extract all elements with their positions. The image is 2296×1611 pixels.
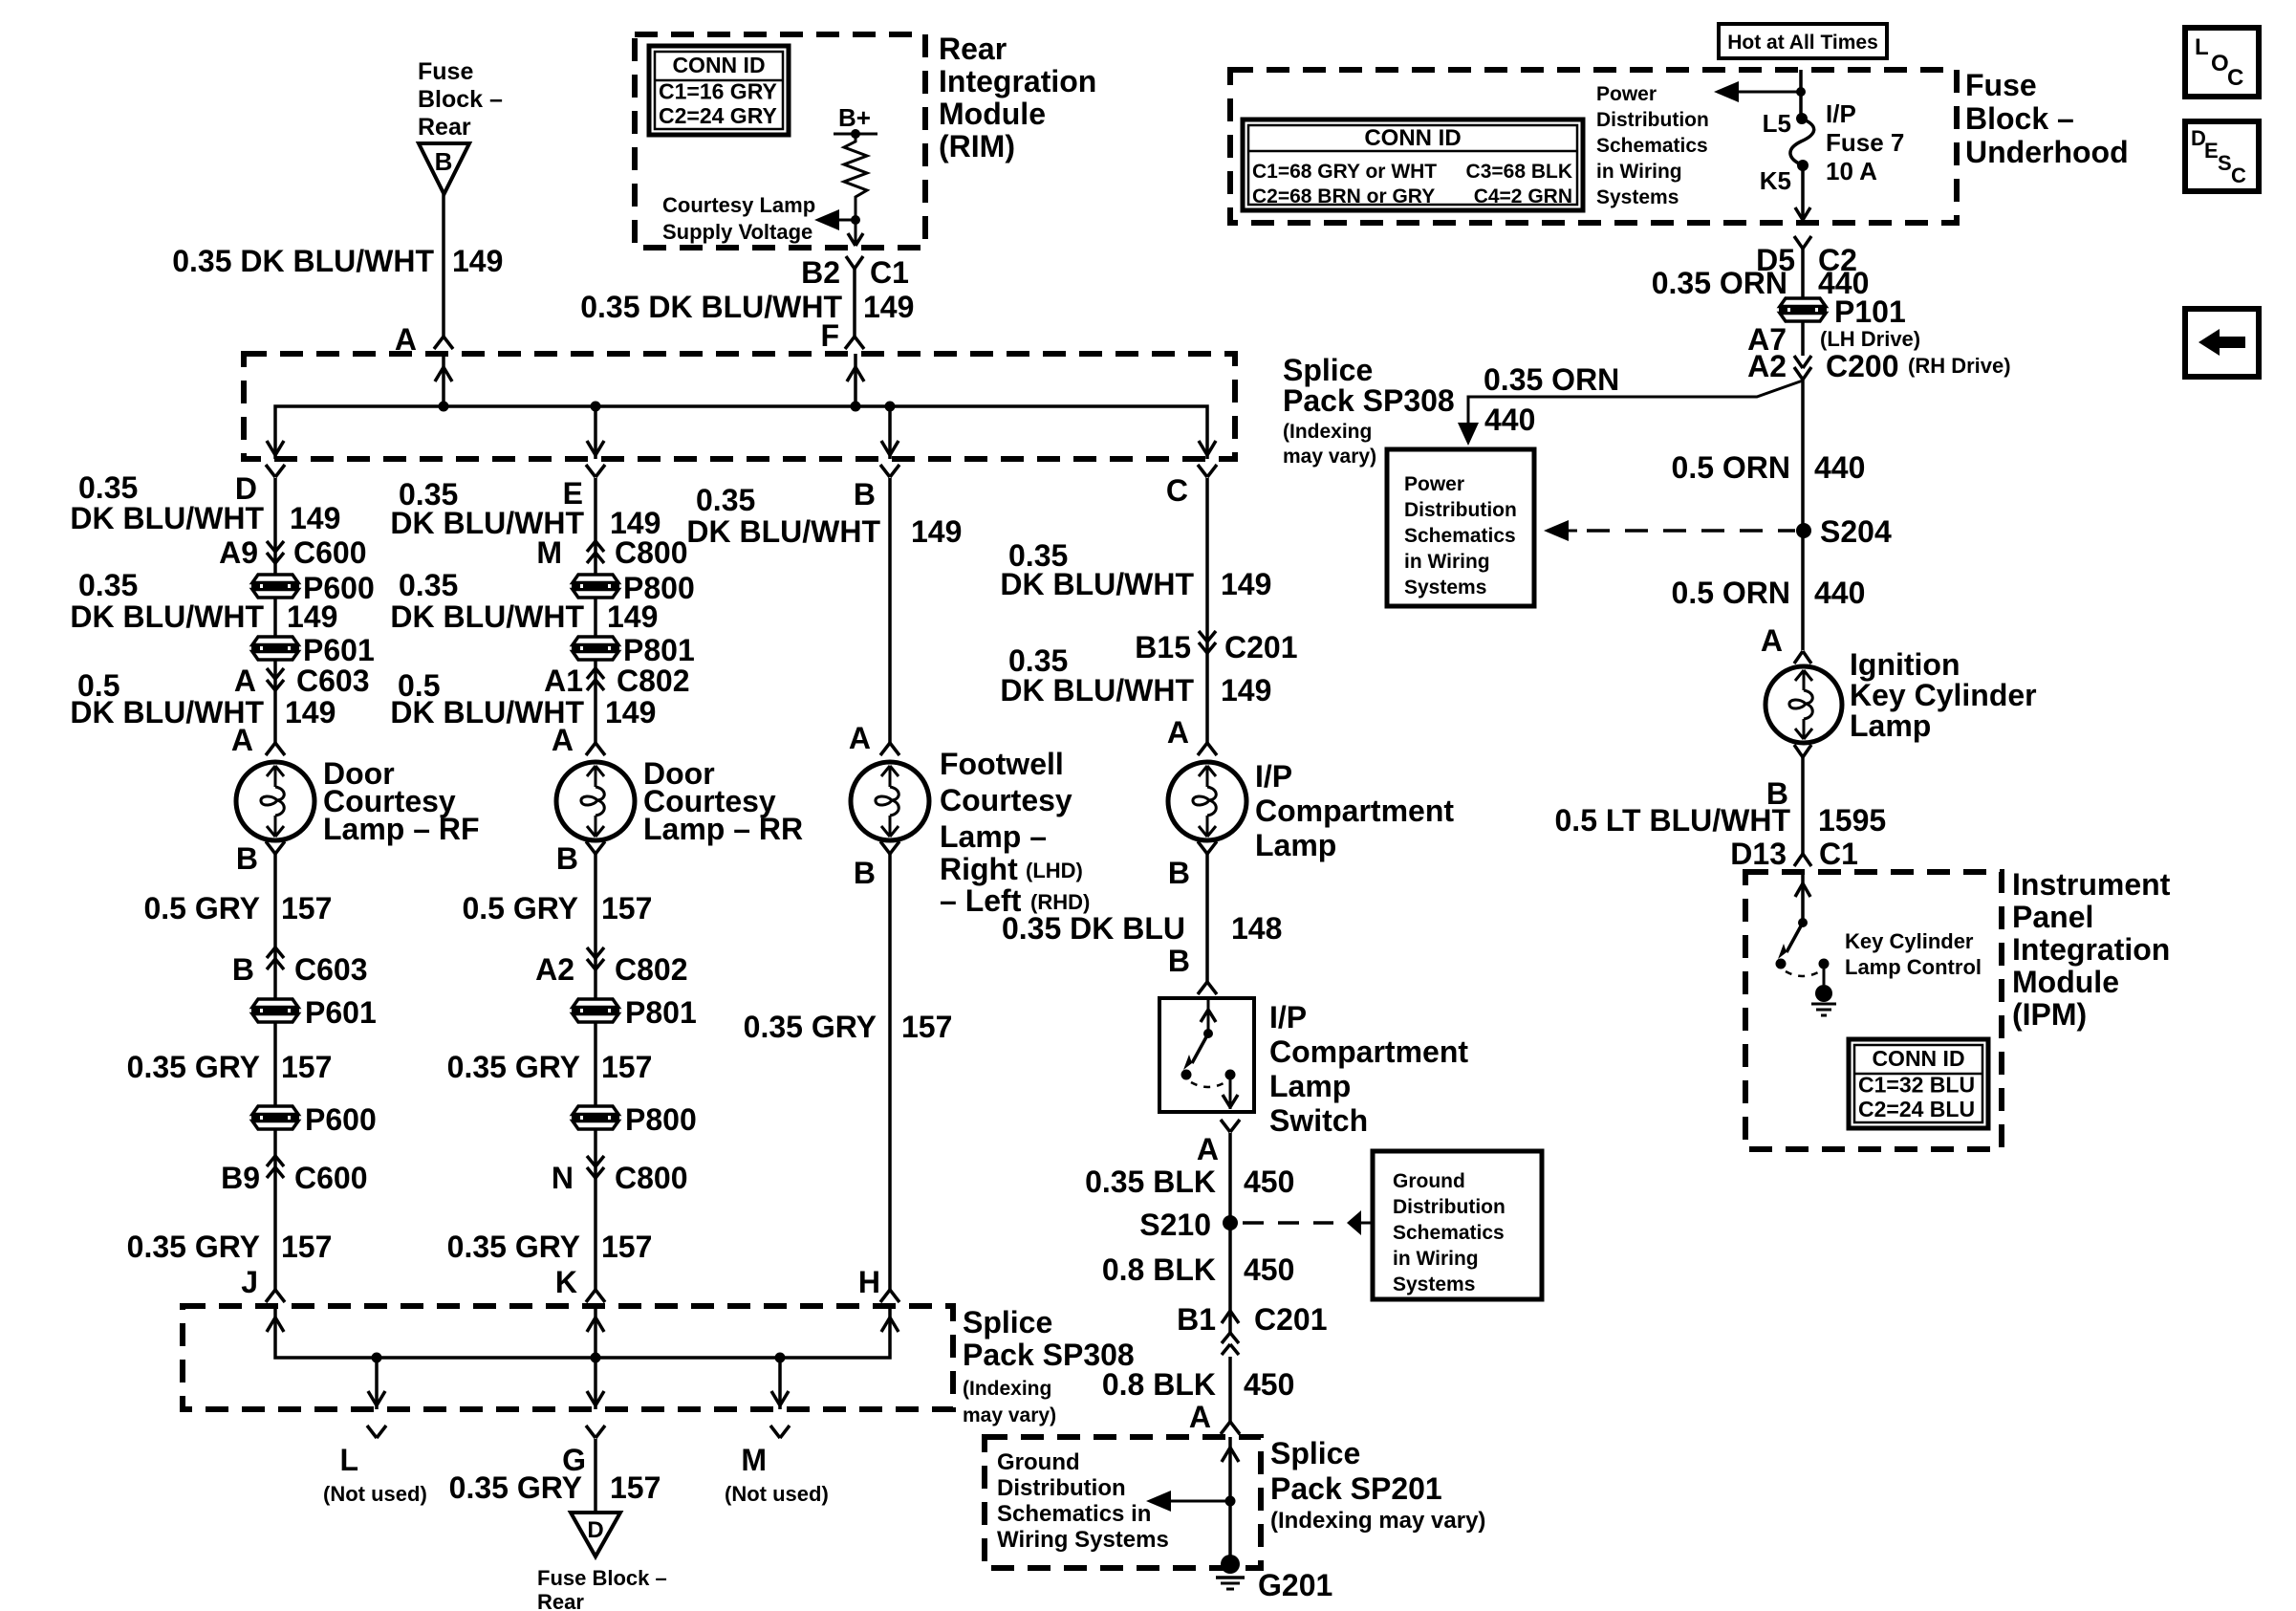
- svg-text:C201: C201: [1224, 630, 1298, 664]
- svg-text:Hot at All Times: Hot at All Times: [1727, 32, 1878, 54]
- footwell courtesy lamp: [851, 762, 929, 840]
- svg-text:Splice: Splice: [1283, 353, 1373, 387]
- svg-text:Lamp: Lamp: [1850, 708, 1931, 743]
- terminal A switch: [1197, 1132, 1219, 1166]
- svg-text:I/P: I/P: [1255, 759, 1292, 794]
- node bus-K: [591, 1353, 601, 1363]
- connector A9/C600: [219, 535, 366, 570]
- svg-text:Fuse Block –: Fuse Block –: [537, 1566, 667, 1590]
- wire G to fuse block rear: [594, 1439, 597, 1513]
- fuse element I/P Fuse 7: [1790, 119, 1814, 165]
- svg-text:S: S: [2218, 151, 2232, 175]
- svg-text:0.35 GRY: 0.35 GRY: [127, 1230, 260, 1264]
- SP308 L drop: [368, 1358, 385, 1409]
- fuse block rear bottom label: [537, 1566, 667, 1611]
- node power junction: [1796, 87, 1806, 97]
- door lamp RR name label: [643, 756, 803, 846]
- terminal A ignition lamp: [1761, 623, 1783, 658]
- svg-text:D: D: [587, 1517, 603, 1543]
- svg-text:Schematics: Schematics: [1393, 1222, 1505, 1244]
- svg-text:Rear: Rear: [537, 1590, 584, 1611]
- svg-text:Distribution: Distribution: [997, 1475, 1126, 1501]
- svg-text:157: 157: [601, 1050, 652, 1084]
- connector chevron SP201: [1221, 1422, 1240, 1434]
- svg-text:440: 440: [1814, 450, 1865, 485]
- connector chevron door lamp RF bottom: [266, 841, 285, 854]
- svg-text:Systems: Systems: [1596, 186, 1679, 208]
- svg-text:A2: A2: [1747, 349, 1787, 383]
- terminal B switch: [1168, 944, 1190, 978]
- svg-text:148: 148: [1231, 911, 1282, 946]
- svg-text:0.35: 0.35: [696, 483, 755, 517]
- splice S204: [1796, 514, 1892, 549]
- courtesy lamp supply voltage label: [662, 193, 815, 244]
- IPM name label: [2012, 867, 2171, 1032]
- connector P800 (lower): [572, 1102, 697, 1137]
- svg-text:Distribution: Distribution: [1404, 499, 1517, 521]
- svg-text:Splice: Splice: [963, 1305, 1052, 1339]
- wire label 0.35 GRY 157 (G): [449, 1470, 661, 1505]
- terminal B ignition lamp: [1766, 776, 1788, 811]
- connector chevron footwell lamp bottom: [880, 841, 899, 854]
- svg-text:Ground: Ground: [997, 1449, 1080, 1475]
- back arrow box: [2185, 309, 2259, 377]
- svg-text:Lamp –: Lamp –: [940, 819, 1047, 854]
- svg-text:Pack SP201: Pack SP201: [1270, 1471, 1442, 1506]
- DESC reference box: [2185, 121, 2259, 191]
- svg-text:B1: B1: [1177, 1302, 1216, 1337]
- wire label 0.35 GRY 157 (D6): [127, 1230, 333, 1264]
- connector chevron branch C: [1198, 465, 1217, 477]
- SP201 ground reference arrow: [1146, 1491, 1230, 1512]
- svg-text:A: A: [1189, 1400, 1211, 1434]
- svg-text:C1: C1: [1819, 837, 1858, 871]
- connector P101: [1779, 294, 1906, 329]
- svg-text:K: K: [555, 1265, 577, 1299]
- svg-text:(RH Drive): (RH Drive): [1908, 354, 2011, 378]
- svg-text:J: J: [241, 1265, 258, 1299]
- svg-text:10 A: 10 A: [1826, 157, 1877, 185]
- svg-text:440: 440: [1484, 403, 1535, 437]
- connector P600 (lower): [251, 1102, 377, 1137]
- svg-text:C4=2 GRN: C4=2 GRN: [1474, 185, 1572, 207]
- svg-text:0.35: 0.35: [78, 568, 138, 602]
- wire label 0.35 GRY 157 (B2): [744, 1010, 953, 1044]
- svg-text:DK BLU/WHT: DK BLU/WHT: [686, 514, 880, 549]
- I/P compartment lamp: [1168, 762, 1246, 840]
- SP308 B exit arrow: [881, 441, 899, 455]
- terminal E label: [563, 476, 583, 511]
- SP308 B drop: [888, 406, 892, 459]
- splice pack SP308 dashed box (top): [244, 354, 1235, 459]
- svg-text:B+: B+: [838, 103, 871, 132]
- svg-text:Systems: Systems: [1393, 1274, 1475, 1295]
- wire switch to S210: [1228, 1133, 1232, 1223]
- svg-text:S204: S204: [1820, 514, 1892, 549]
- svg-text:149: 149: [285, 695, 336, 729]
- connector A2/C200: [1747, 349, 2010, 383]
- footwell lamp name label: [940, 747, 1090, 918]
- connector P801 (lower): [572, 995, 697, 1030]
- power feed arrow left: [1714, 81, 1801, 102]
- svg-text:0.35 GRY: 0.35 GRY: [744, 1010, 877, 1044]
- svg-text:0.35 ORN: 0.35 ORN: [1484, 362, 1619, 397]
- fuse block CONN ID table: [1243, 120, 1583, 210]
- SP308 A riser: [435, 354, 452, 406]
- svg-text:Fuse: Fuse: [1965, 68, 2037, 102]
- wire branch D upper: [273, 478, 277, 743]
- wire label 0.5 GRY 157 (E4): [462, 891, 652, 925]
- IPM CONN ID table: [1849, 1039, 1988, 1128]
- node RIM output junction: [851, 215, 860, 225]
- svg-text:B: B: [556, 841, 578, 876]
- svg-text:C1=68 GRY or WHT: C1=68 GRY or WHT: [1252, 161, 1437, 183]
- svg-text:157: 157: [901, 1010, 952, 1044]
- wire RIM to splice pack F: [853, 269, 856, 337]
- splice pack SP308 label (top): [1283, 353, 1455, 468]
- svg-text:157: 157: [281, 1230, 332, 1264]
- G201 label: [1258, 1568, 1332, 1602]
- svg-text:B: B: [236, 841, 258, 876]
- SP308 H entry arrow: [881, 1317, 899, 1332]
- svg-text:P801: P801: [625, 995, 697, 1030]
- svg-text:A: A: [231, 723, 253, 757]
- wire branch B upper: [888, 478, 892, 743]
- svg-text:B9: B9: [221, 1161, 260, 1195]
- key cylinder lamp control label: [1845, 929, 1982, 979]
- svg-text:Ignition: Ignition: [1850, 647, 1960, 682]
- Fuse Block Underhood dashed box: [1230, 70, 1957, 223]
- SP308 K riser: [587, 1306, 604, 1358]
- SP201 input arrow: [1222, 1437, 1239, 1501]
- Instrument Panel Integration Module dashed box: [1745, 872, 2002, 1149]
- svg-text:Switch: Switch: [1269, 1103, 1368, 1138]
- wire label 0.35 DK BLU/WHT 149 (feed F): [580, 290, 914, 324]
- svg-text:L: L: [2195, 34, 2209, 60]
- svg-text:Courtesy Lamp: Courtesy Lamp: [662, 193, 815, 217]
- svg-text:Schematics: Schematics: [1404, 525, 1516, 547]
- svg-text:Systems: Systems: [1404, 577, 1486, 599]
- svg-text:C: C: [1166, 473, 1188, 508]
- svg-text:P600: P600: [305, 1102, 377, 1137]
- splice pack SP201 dashed box: [985, 1437, 1261, 1568]
- svg-text:Footwell: Footwell: [940, 747, 1064, 781]
- svg-text:M: M: [741, 1443, 767, 1477]
- wire ignition lamp to IPM: [1801, 757, 1805, 854]
- svg-text:Courtesy: Courtesy: [940, 783, 1072, 817]
- node bus-F: [851, 402, 861, 412]
- svg-text:Lamp Control: Lamp Control: [1845, 955, 1982, 979]
- connector chevron door lamp RR bottom: [586, 841, 605, 854]
- svg-text:0.8 BLK: 0.8 BLK: [1102, 1252, 1216, 1287]
- svg-text:0.35 DK BLU: 0.35 DK BLU: [1002, 911, 1185, 946]
- connector N/C800: [552, 1156, 688, 1195]
- terminal L label: [323, 1443, 427, 1506]
- svg-text:A: A: [849, 721, 871, 755]
- terminal K label: [555, 1265, 577, 1299]
- svg-text:Power: Power: [1404, 473, 1464, 495]
- connector chevron ignition lamp bottom: [1794, 745, 1811, 757]
- wire label 0.5 DK BLU/WHT 149 (D3): [70, 668, 336, 729]
- svg-text:B: B: [854, 856, 876, 890]
- fuse block underhood name label: [1965, 68, 2129, 169]
- svg-text:Distribution: Distribution: [1393, 1196, 1505, 1218]
- wire label 0.35 ORN 440: [1652, 266, 1870, 300]
- terminal A I/P lamp: [1167, 715, 1189, 750]
- node bus-E: [591, 402, 601, 412]
- svg-text:Pack SP308: Pack SP308: [963, 1338, 1135, 1372]
- svg-text:C800: C800: [615, 535, 688, 570]
- I/P compartment lamp switch box: [1159, 998, 1254, 1112]
- wire label 0.8 BLK 450 (upper): [1102, 1252, 1295, 1287]
- power distribution reference label (fuse block): [1596, 83, 1709, 208]
- svg-text:Compartment: Compartment: [1255, 794, 1454, 828]
- svg-text:Underhood: Underhood: [1965, 135, 2129, 169]
- svg-text:A2: A2: [535, 952, 574, 987]
- svg-text:E: E: [2204, 139, 2219, 163]
- svg-text:1595: 1595: [1818, 803, 1886, 838]
- svg-text:Block –: Block –: [418, 86, 503, 113]
- svg-text:Power: Power: [1596, 83, 1657, 105]
- connector chevron ignition lamp top: [1794, 651, 1811, 664]
- svg-text:B15: B15: [1135, 630, 1191, 664]
- svg-text:C1=16 GRY: C1=16 GRY: [659, 79, 777, 104]
- svg-text:I/P: I/P: [1826, 99, 1856, 128]
- wire label 0.35 ORN (branch): [1484, 362, 1619, 397]
- svg-text:0.35 GRY: 0.35 GRY: [447, 1230, 580, 1264]
- svg-text:149: 149: [607, 599, 658, 634]
- Hot at All Times box: [1719, 24, 1887, 58]
- svg-text:157: 157: [610, 1470, 661, 1505]
- connector chevron branch E: [586, 465, 605, 477]
- wire C200 to ignition lamp: [1801, 377, 1805, 650]
- wire label 0.35 DK BLU/WHT 149 (B1): [686, 483, 962, 549]
- wire label 0.5 ORN 440 (upper): [1672, 450, 1866, 485]
- connector chevron at G: [586, 1426, 605, 1438]
- connector chevron at A: [434, 337, 453, 349]
- wire label 0.8 BLK 450 (lower): [1102, 1367, 1295, 1402]
- switch ground ball: [1815, 985, 1832, 1002]
- svg-text:0.35: 0.35: [399, 568, 458, 602]
- svg-text:P801: P801: [623, 633, 695, 667]
- wire hot feed: [1799, 70, 1803, 119]
- svg-text:I/P: I/P: [1269, 1000, 1307, 1034]
- splice pack SP308 label (bottom): [963, 1305, 1135, 1426]
- svg-text:C1=32 BLU: C1=32 BLU: [1858, 1073, 1975, 1098]
- svg-text:Block –: Block –: [1965, 101, 2074, 136]
- svg-text:A: A: [234, 664, 256, 698]
- courtesy lamp supply voltage arrow: [814, 209, 856, 230]
- svg-text:Distribution: Distribution: [1596, 109, 1709, 131]
- RIM CONN ID table: [649, 46, 789, 135]
- svg-text:A1: A1: [544, 664, 583, 698]
- svg-text:O: O: [2211, 51, 2229, 76]
- wire label 0.35 DK BLU/WHT 149 (D2): [70, 568, 337, 634]
- wire label 0.5 DK BLU/WHT 149 (E3): [390, 668, 656, 729]
- svg-text:(LH Drive): (LH Drive): [1820, 327, 1920, 351]
- svg-text:Instrument: Instrument: [2012, 867, 2171, 902]
- fuse L5 terminal: [1763, 109, 1808, 138]
- svg-text:0.8 BLK: 0.8 BLK: [1102, 1367, 1216, 1402]
- svg-text:N: N: [552, 1161, 574, 1195]
- svg-text:B: B: [854, 477, 876, 512]
- svg-text:D13: D13: [1730, 837, 1787, 871]
- LOC reference box: [2185, 28, 2259, 97]
- svg-text:P601: P601: [303, 633, 375, 667]
- terminal D label: [235, 471, 257, 506]
- svg-text:149: 149: [911, 514, 962, 549]
- svg-text:(RIM): (RIM): [939, 129, 1015, 163]
- connector P800 (upper): [572, 571, 695, 605]
- terminal B door lamp RR: [556, 841, 578, 876]
- connector chevron at F: [845, 337, 864, 349]
- svg-text:B: B: [232, 952, 254, 987]
- svg-text:may vary): may vary): [963, 1404, 1056, 1426]
- svg-text:C: C: [2227, 65, 2243, 91]
- fuse K5 terminal: [1760, 160, 1809, 195]
- connector chevron I/P lamp bottom: [1198, 841, 1217, 854]
- splice pack SP308 dashed box (bottom): [183, 1306, 953, 1409]
- svg-text:A: A: [1197, 1132, 1219, 1166]
- connector D5/C2: [1756, 243, 1857, 277]
- svg-text:C1: C1: [870, 255, 909, 290]
- wire label 0.5 ORN 440 (lower): [1672, 576, 1866, 610]
- svg-text:(Not used): (Not used): [725, 1482, 829, 1506]
- connector chevron below fuse block: [1794, 236, 1811, 249]
- svg-text:149: 149: [1221, 673, 1271, 708]
- SP308 C exit arrow: [1199, 441, 1216, 455]
- svg-text:450: 450: [1244, 1165, 1294, 1199]
- wire label 0.35 DK BLU/WHT 149 (feed A): [172, 244, 503, 278]
- svg-text:may vary): may vary): [1283, 446, 1376, 468]
- B+ terminal: [834, 103, 877, 139]
- svg-text:DK BLU/WHT: DK BLU/WHT: [1000, 673, 1194, 708]
- svg-text:Lamp – RF: Lamp – RF: [323, 812, 480, 846]
- connector chevron at M: [770, 1426, 790, 1438]
- node bus-L: [372, 1353, 382, 1363]
- wire label 440 (branch): [1484, 403, 1535, 437]
- connector chevron footwell lamp top: [880, 743, 899, 755]
- switch mechanism: [1181, 998, 1239, 1109]
- connector P801 (upper): [572, 633, 695, 667]
- ground distribution schematics box (S210): [1373, 1151, 1542, 1299]
- svg-text:C603: C603: [296, 664, 370, 698]
- wire label 0.35 DK BLU 148: [1002, 911, 1282, 946]
- svg-text:Wiring Systems: Wiring Systems: [997, 1527, 1169, 1553]
- connector chevron switch top: [1198, 982, 1217, 994]
- splice pack SP201 label: [1270, 1436, 1485, 1534]
- terminal G label: [562, 1443, 586, 1477]
- svg-text:157: 157: [281, 891, 332, 925]
- svg-text:Ground: Ground: [1393, 1170, 1465, 1192]
- svg-text:0.5 LT BLU/WHT: 0.5 LT BLU/WHT: [1555, 803, 1791, 838]
- svg-text:in Wiring: in Wiring: [1404, 551, 1490, 573]
- svg-text:0.5 ORN: 0.5 ORN: [1672, 450, 1790, 485]
- wire label 0.5 GRY 157 (D4): [143, 891, 332, 925]
- svg-text:0.35 GRY: 0.35 GRY: [449, 1470, 582, 1505]
- wire P101 to C200: [1801, 320, 1805, 356]
- connector chevron at J: [266, 1290, 285, 1302]
- connector P600 (upper): [251, 571, 375, 605]
- svg-text:Lamp: Lamp: [1269, 1069, 1351, 1103]
- wire fuse to P101: [1801, 249, 1805, 299]
- svg-text:B: B: [1168, 944, 1190, 978]
- svg-text:C201: C201: [1254, 1302, 1328, 1337]
- terminal H label: [858, 1265, 880, 1299]
- svg-text:157: 157: [601, 891, 652, 925]
- svg-text:C600: C600: [293, 535, 367, 570]
- svg-text:(Indexing: (Indexing: [1283, 421, 1372, 443]
- svg-text:CONN ID: CONN ID: [1364, 125, 1461, 151]
- svg-text:Compartment: Compartment: [1269, 1034, 1468, 1069]
- wire branch 0.35 ORN to power dist: [1458, 381, 1803, 446]
- svg-text:157: 157: [601, 1230, 652, 1264]
- wire label 0.35 GRY 157 (D5): [127, 1050, 333, 1084]
- svg-text:L5: L5: [1763, 109, 1791, 138]
- node SP201 junction: [1225, 1496, 1236, 1507]
- svg-text:C802: C802: [615, 952, 688, 987]
- SP308 E exit arrow: [587, 441, 604, 455]
- wire label 0.35 DK BLU/WHT 149 (E2): [390, 568, 658, 634]
- svg-text:Rear: Rear: [418, 114, 471, 141]
- svg-text:0.35 DK BLU/WHT: 0.35 DK BLU/WHT: [580, 290, 842, 324]
- svg-text:Module: Module: [2012, 965, 2119, 999]
- svg-text:DK BLU/WHT: DK BLU/WHT: [390, 599, 584, 634]
- connector chevron door lamp RR top: [586, 743, 605, 755]
- svg-text:C: C: [2231, 163, 2246, 187]
- svg-text:0.35 DK BLU/WHT: 0.35 DK BLU/WHT: [172, 244, 434, 278]
- svg-text:M: M: [536, 535, 562, 570]
- connector chevron door lamp RF top: [266, 743, 285, 755]
- svg-text:in Wiring: in Wiring: [1596, 161, 1682, 183]
- svg-text:F: F: [820, 318, 839, 353]
- I/P lamp name label: [1255, 759, 1454, 862]
- svg-text:C600: C600: [294, 1161, 368, 1195]
- svg-text:in Wiring: in Wiring: [1393, 1248, 1479, 1270]
- svg-text:Fuse: Fuse: [418, 58, 473, 85]
- terminal A door lamp RF: [231, 723, 253, 757]
- connector A/C603: [234, 664, 370, 698]
- fuse block rear triangle connector B: [419, 143, 469, 194]
- connector B2/C1 of RIM: [801, 255, 909, 290]
- svg-text:(Indexing: (Indexing: [963, 1378, 1051, 1400]
- wire label 0.35 DK BLU/WHT 149 (C1): [1000, 538, 1271, 601]
- SP308 F riser: [847, 354, 864, 406]
- connector B/C603: [232, 947, 368, 987]
- terminal F label (SP308): [820, 318, 839, 353]
- wire branch E lower: [594, 854, 597, 1290]
- connector A2/C802: [535, 947, 687, 987]
- pin A7 label: [1747, 322, 1920, 357]
- wire label 0.35 GRY 157 (E6): [447, 1230, 653, 1264]
- svg-text:0.5 GRY: 0.5 GRY: [462, 891, 578, 925]
- svg-text:157: 157: [281, 1050, 332, 1084]
- wire label 0.35 BLK 450: [1085, 1165, 1294, 1199]
- ground symbol G201: [1216, 1578, 1245, 1589]
- connector B9/C600: [221, 1156, 367, 1195]
- terminal B footwell lamp: [854, 856, 876, 890]
- svg-text:C2=24 BLU: C2=24 BLU: [1858, 1097, 1975, 1121]
- door courtesy lamp RF: [236, 762, 314, 840]
- svg-text:C603: C603: [294, 952, 368, 987]
- wire branch E upper: [594, 478, 597, 743]
- svg-text:0.35: 0.35: [78, 470, 138, 505]
- svg-text:(Indexing may vary): (Indexing may vary): [1270, 1508, 1485, 1534]
- svg-text:A: A: [552, 723, 574, 757]
- RIM module name label: [939, 32, 1096, 163]
- SP308 G drop: [587, 1358, 604, 1409]
- svg-text:DK BLU/WHT: DK BLU/WHT: [1000, 567, 1194, 601]
